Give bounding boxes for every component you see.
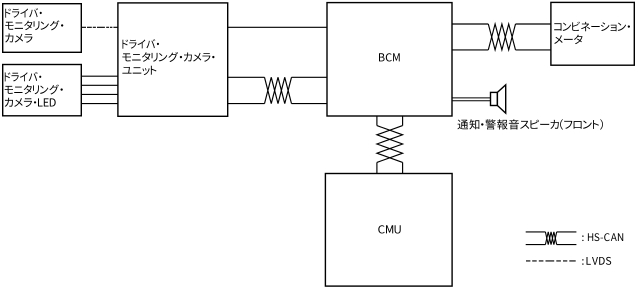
box: driver monitoring camera <box>3 4 82 53</box>
label: driver monitoring camera unit text <box>122 39 214 75</box>
label: CMU text <box>378 225 400 233</box>
wire: LED line 2 <box>81 84 118 86</box>
legend: HS-CAN symbol <box>526 232 577 245</box>
wire: LED line 4 <box>81 103 118 105</box>
wire: unit to BCM top line <box>228 26 327 28</box>
wire: BCM to speaker double line <box>452 98 491 101</box>
label: combination meter text <box>554 22 630 44</box>
label: BCM text <box>379 53 400 61</box>
box: driver monitoring camera unit <box>118 3 228 116</box>
legend: HS-CAN text <box>582 233 623 241</box>
wire: LED line 1 <box>81 75 118 77</box>
box: CMU <box>325 174 452 287</box>
label: driver monitoring camera LED text <box>5 72 63 107</box>
symbol: speaker <box>491 85 506 113</box>
box: driver monitoring camera LED <box>3 65 82 116</box>
wire: BCM to CMU HS-CAN pair <box>377 116 403 174</box>
box: BCM <box>327 3 452 116</box>
legend: LVDS text <box>582 257 611 265</box>
wire: LVDS dashed line camera to unit <box>81 26 118 28</box>
label: driver monitoring camera text <box>5 8 63 43</box>
wire: unit to BCM HS-CAN pair <box>228 77 327 103</box>
label: notification warning speaker (front) <box>458 119 604 130</box>
legend: LVDS symbol <box>526 260 576 262</box>
box: combination meter <box>551 2 634 65</box>
wire: BCM to combination meter HS-CAN pair <box>452 24 551 50</box>
wire: LED line 3 <box>81 93 118 95</box>
